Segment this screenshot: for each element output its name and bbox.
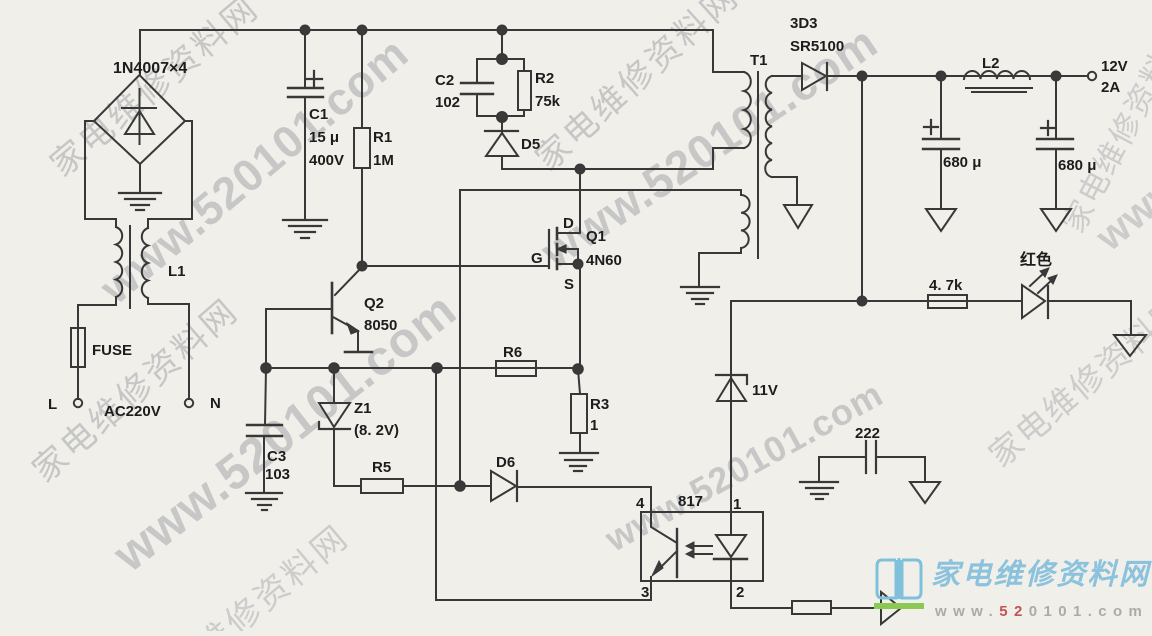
- svg-text:102: 102: [435, 94, 460, 111]
- node R1-gate junction: [358, 262, 367, 271]
- node rail2 Z1: [329, 363, 339, 373]
- ground 680u first (triangle): [926, 209, 956, 231]
- svg-text:1M: 1M: [373, 152, 394, 169]
- node output rail C: [1052, 72, 1061, 81]
- capacitor 222: [819, 441, 925, 482]
- svg-text:C2: C2: [435, 72, 454, 89]
- svg-text:R2: R2: [535, 70, 554, 87]
- green underline: [874, 603, 924, 609]
- zener Z1: [319, 368, 350, 486]
- resistor R2: [518, 59, 531, 116]
- capacitor 680u first: [923, 76, 959, 209]
- wire bridge top stub: [139, 30, 141, 75]
- inductor L2: [964, 71, 1032, 92]
- resistor R1: [354, 30, 370, 266]
- ground C1: [283, 220, 327, 238]
- svg-text:680 μ: 680 μ: [1058, 157, 1096, 174]
- wire output rail: [862, 75, 1088, 77]
- svg-text:家电维修资料网: 家电维修资料网: [931, 558, 1152, 591]
- fuse FUSE: [71, 328, 85, 399]
- svg-text:R6: R6: [503, 344, 522, 361]
- svg-text:Z1: Z1: [354, 400, 372, 417]
- capacitor C3: [247, 368, 282, 492]
- svg-text:103: 103: [265, 466, 290, 483]
- svg-text:680 μ: 680 μ: [943, 154, 981, 171]
- svg-text:4N60: 4N60: [586, 252, 622, 269]
- node top rail R1: [358, 26, 367, 35]
- resistor 4.7k: [928, 295, 967, 308]
- svg-text:1: 1: [590, 417, 598, 434]
- wire rail2: [266, 367, 580, 369]
- node output rail A: [858, 72, 867, 81]
- svg-text:(8. 2V): (8. 2V): [354, 422, 399, 439]
- svg-text:N: N: [210, 395, 221, 412]
- svg-text:817: 817: [678, 493, 703, 510]
- wire top rail: [140, 30, 713, 72]
- node Q1 source: [574, 260, 583, 269]
- node drain junction: [576, 165, 585, 174]
- diode 3D3 SR5100: [802, 63, 862, 90]
- capacitor 680u second: [1037, 76, 1073, 209]
- svg-text:www.520101.com: www.520101.com: [934, 603, 1148, 620]
- resistor R3: [571, 369, 587, 452]
- svg-text:R3: R3: [590, 396, 609, 413]
- ground bridge: [119, 193, 161, 210]
- arrow output (triangle): [881, 592, 901, 624]
- wire led rail: [731, 301, 1022, 512]
- svg-text:1: 1: [733, 496, 741, 513]
- wire bridge bottom: [139, 164, 141, 191]
- terminal L: [74, 399, 82, 407]
- capacitor C2: [461, 59, 493, 116]
- svg-text:D6: D6: [496, 454, 515, 471]
- terminal 12V output: [1088, 72, 1096, 80]
- svg-text:D5: D5: [521, 136, 540, 153]
- zener 11V: [716, 375, 747, 401]
- svg-text:L: L: [48, 396, 57, 413]
- wire Q2 base down: [265, 309, 267, 368]
- svg-text:L1: L1: [168, 263, 186, 280]
- wire bridge right arm: [148, 121, 192, 228]
- svg-text:4. 7k: 4. 7k: [929, 277, 963, 294]
- node rail2 R3: [573, 364, 583, 374]
- svg-text:15 μ: 15 μ: [309, 129, 339, 146]
- ground 222 right (triangle): [910, 482, 940, 503]
- ground C3: [246, 493, 282, 510]
- wire bridge left arm: [85, 121, 116, 227]
- node snubber top: [497, 54, 507, 64]
- svg-text:400V: 400V: [309, 152, 344, 169]
- ground T1 secondary (triangle): [784, 205, 812, 228]
- wire feedback vertical: [861, 76, 863, 301]
- wire aux feedback line: [459, 190, 461, 486]
- bridge rectifier 1N4007x4: [94, 75, 185, 164]
- node R5-D6 junction: [455, 481, 465, 491]
- svg-text:G: G: [531, 250, 543, 267]
- ground R3: [560, 453, 598, 471]
- optocoupler 817: [436, 368, 792, 608]
- node top rail snubber: [498, 26, 507, 35]
- diode D6: [460, 471, 651, 501]
- diode D5: [485, 117, 518, 169]
- svg-text:Q1: Q1: [586, 228, 606, 245]
- wire snubber stub: [501, 30, 503, 59]
- svg-text:C1: C1: [309, 106, 328, 123]
- svg-text:FUSE: FUSE: [92, 342, 132, 359]
- svg-text:R1: R1: [373, 129, 392, 146]
- wire L1 right to N: [148, 298, 189, 399]
- svg-text:2: 2: [736, 584, 744, 601]
- svg-text:L2: L2: [982, 55, 1000, 72]
- terminal N: [185, 399, 193, 407]
- svg-text:4: 4: [636, 495, 645, 512]
- wire L1 left to fuse: [78, 297, 116, 328]
- snubber loop wires: [477, 59, 524, 116]
- svg-text:红色: 红色: [1020, 250, 1052, 269]
- svg-text:R5: R5: [372, 459, 391, 476]
- node snubber bottom: [497, 112, 507, 122]
- wire drain rail: [502, 148, 713, 169]
- inductor L1 common-mode choke: [116, 226, 148, 308]
- resistor on opto output: [792, 601, 879, 614]
- transistor Q2 8050: [266, 269, 372, 352]
- svg-text:222: 222: [855, 425, 880, 442]
- transformer T1: [460, 72, 802, 285]
- svg-text:8050: 8050: [364, 317, 397, 334]
- capacitor C1: [288, 30, 323, 218]
- ground 222 left: [800, 482, 838, 499]
- resistor R6: [437, 361, 578, 376]
- mosfet Q1 4N60: [549, 169, 580, 369]
- svg-text:3: 3: [641, 584, 649, 601]
- svg-text:S: S: [564, 276, 574, 293]
- ground 680u second (triangle): [1041, 209, 1071, 231]
- svg-text:AC220V: AC220V: [104, 403, 161, 420]
- svg-text:11V: 11V: [752, 382, 778, 399]
- node top rail C1: [301, 26, 310, 35]
- node led rail: [858, 297, 867, 306]
- wire LED to ground: [1048, 301, 1131, 335]
- book icon: [877, 558, 921, 599]
- node rail2 base: [261, 363, 271, 373]
- svg-text:12V: 12V: [1101, 58, 1128, 75]
- wire gate line: [362, 265, 548, 267]
- svg-text:D: D: [563, 215, 574, 232]
- node output rail B: [937, 72, 946, 81]
- ground T1 aux: [681, 287, 719, 304]
- svg-text:3D3: 3D3: [790, 15, 818, 32]
- ground LED (triangle): [1114, 335, 1146, 356]
- svg-text:Q2: Q2: [364, 295, 384, 312]
- node rail2 opto: [432, 363, 442, 373]
- svg-text:SR5100: SR5100: [790, 38, 844, 55]
- resistor R5: [334, 479, 460, 493]
- svg-text:1N4007×4: 1N4007×4: [113, 60, 187, 77]
- svg-text:C3: C3: [267, 448, 286, 465]
- svg-text:T1: T1: [750, 52, 768, 69]
- svg-text:2A: 2A: [1101, 79, 1120, 96]
- LED red: [1022, 268, 1057, 318]
- svg-text:75k: 75k: [535, 93, 561, 110]
